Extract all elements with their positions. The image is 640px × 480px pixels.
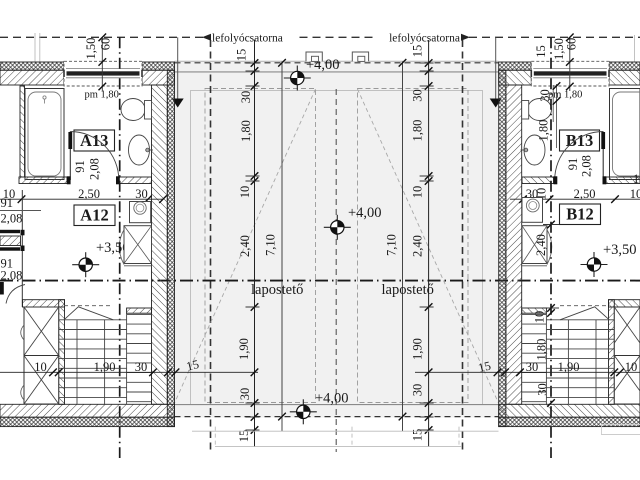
left eaves down arrow xyxy=(177,37,179,100)
left niche partition line xyxy=(21,190,23,307)
washbasin A xyxy=(129,135,150,165)
svg-text:30: 30 xyxy=(526,360,539,374)
left stairs direction arrow xyxy=(64,305,113,307)
right unit top wall insulation xyxy=(499,62,532,70)
svg-text:1,50: 1,50 xyxy=(84,38,98,60)
bathroom B13 door leaf xyxy=(602,132,604,181)
left wall cased opening xyxy=(0,230,20,233)
svg-text:pm 1,80: pm 1,80 xyxy=(548,90,582,101)
svg-text:30: 30 xyxy=(536,383,550,396)
bathroom A13 left partition xyxy=(20,86,25,177)
svg-text:lapostető: lapostető xyxy=(382,282,434,298)
svg-text:91: 91 xyxy=(73,160,87,173)
left unit right wall brick xyxy=(152,85,168,404)
left unit axis line xyxy=(119,37,121,458)
svg-text:pm 1,80: pm 1,80 xyxy=(85,90,119,101)
lower neighbor line 2 xyxy=(215,445,462,447)
svg-text:+4,00: +4,00 xyxy=(348,205,382,221)
svg-text:15: 15 xyxy=(411,429,425,442)
svg-text:60: 60 xyxy=(99,38,113,51)
svg-text:+3,50: +3,50 xyxy=(603,242,637,258)
svg-text:30: 30 xyxy=(411,384,425,397)
svg-text:10: 10 xyxy=(238,186,252,199)
svg-text:1,90: 1,90 xyxy=(237,338,251,360)
left roof slope diagonal xyxy=(175,89,316,403)
svg-text:lefolyócsatorna: lefolyócsatorna xyxy=(212,33,283,45)
left drain channel dashed line xyxy=(210,40,212,450)
right stairs dimension line xyxy=(415,371,640,373)
svg-text:10: 10 xyxy=(630,187,640,201)
room label A12 xyxy=(74,205,115,226)
lefolyócsatorna label left xyxy=(202,34,211,41)
room label B12 xyxy=(560,204,601,225)
B12 dimension line xyxy=(510,198,640,200)
washbasin B xyxy=(524,135,545,165)
svg-text:1,80: 1,80 xyxy=(537,120,551,142)
washing machine B xyxy=(522,198,543,223)
right unit left wall brick xyxy=(506,85,522,404)
right window xyxy=(531,61,609,86)
svg-text:lefolyócsatorna: lefolyócsatorna xyxy=(389,33,460,45)
lower neighbor dashes xyxy=(214,427,216,447)
svg-text:1,90: 1,90 xyxy=(558,360,580,374)
roof inner light rect xyxy=(191,91,483,405)
left unit top wall insulation xyxy=(0,62,64,70)
bathroom A13 door swing arc xyxy=(70,132,119,181)
svg-text:15: 15 xyxy=(534,45,548,58)
left stairs landing wall xyxy=(127,308,152,313)
left niche counter line xyxy=(0,210,41,212)
main horizontal axis line xyxy=(0,280,640,282)
elevation marker +3,50 left xyxy=(72,252,99,277)
elevation marker +4,00 bottom xyxy=(290,399,317,424)
left window xyxy=(64,61,142,86)
right shaft top wall xyxy=(609,300,640,307)
svg-text:30: 30 xyxy=(411,89,425,102)
svg-text:2,40: 2,40 xyxy=(238,235,252,257)
center dashed line xyxy=(335,89,337,452)
shower tray B xyxy=(522,226,547,264)
left unit right wall insulation xyxy=(167,70,174,426)
washing machine A xyxy=(130,202,151,223)
left shaft top wall xyxy=(23,300,65,307)
right unit top wall brick xyxy=(499,70,532,85)
right shaft box lower xyxy=(614,356,640,405)
svg-text:B12: B12 xyxy=(566,205,594,224)
lower neighbor line 1 xyxy=(192,430,499,432)
roof top edge line xyxy=(175,60,499,62)
svg-text:30: 30 xyxy=(238,388,252,401)
svg-text:+4,00: +4,00 xyxy=(315,391,349,407)
svg-text:30: 30 xyxy=(239,91,253,104)
bathroom B mini chain xyxy=(556,84,558,148)
roof lower wall line xyxy=(175,404,499,406)
svg-text:10: 10 xyxy=(34,360,47,374)
roof bottom eaves dashed line xyxy=(175,416,499,418)
left roof panel dashed outline xyxy=(205,89,316,403)
svg-text:1,80: 1,80 xyxy=(239,120,253,142)
svg-text:15: 15 xyxy=(411,45,425,58)
roof drain outlet right xyxy=(352,52,368,61)
svg-text:1,80: 1,80 xyxy=(411,120,425,142)
svg-text:2,50: 2,50 xyxy=(78,187,100,201)
svg-text:2,08: 2,08 xyxy=(88,158,102,180)
left shaft vent arcs xyxy=(21,325,24,340)
elevation marker +4,00 middle xyxy=(324,215,351,240)
left shaft right wall xyxy=(59,300,65,405)
left stairs treads xyxy=(59,314,152,401)
left 7,10 overall dimension line xyxy=(281,62,283,432)
roof upper wall line xyxy=(175,71,499,73)
svg-text:2,50: 2,50 xyxy=(574,187,596,201)
svg-text:15: 15 xyxy=(235,49,249,62)
svg-text:2,08: 2,08 xyxy=(580,155,594,177)
svg-text:10: 10 xyxy=(633,172,640,186)
svg-text:1,90: 1,90 xyxy=(94,360,116,374)
svg-text:2,08: 2,08 xyxy=(1,212,23,226)
svg-text:7,10: 7,10 xyxy=(264,234,278,256)
lefolyócsatorna label right xyxy=(461,34,470,41)
right shaft box upper xyxy=(614,307,640,356)
right roof dimension chain line xyxy=(428,40,430,447)
svg-text:91: 91 xyxy=(566,158,580,171)
svg-text:lapostető: lapostető xyxy=(251,282,303,298)
svg-text:7,10: 7,10 xyxy=(385,234,399,256)
right unit axis line xyxy=(550,37,552,458)
left stairs flight lines xyxy=(76,320,78,405)
room label B13 xyxy=(560,130,600,151)
toilet B partition line xyxy=(552,85,554,122)
left unit bottom wall insulation xyxy=(0,417,175,426)
svg-text:1,90: 1,90 xyxy=(411,338,425,360)
elevation marker +3,50 right xyxy=(581,252,608,277)
toilet A xyxy=(121,99,145,121)
bathroom B13 bottom partition xyxy=(522,177,554,184)
A12 dimension line xyxy=(0,198,163,200)
svg-text:10: 10 xyxy=(625,360,638,374)
svg-text:2,40: 2,40 xyxy=(411,235,425,257)
svg-text:10: 10 xyxy=(411,186,425,199)
left stairs dimension line xyxy=(0,371,258,373)
bathroom A13 door leaf xyxy=(69,132,71,181)
left shaft box upper xyxy=(24,307,59,356)
toilet B xyxy=(528,99,552,121)
svg-text:30: 30 xyxy=(135,360,148,374)
bathtub A xyxy=(25,89,64,180)
bathroom A13 bottom partition xyxy=(19,177,67,184)
room label A13 xyxy=(74,130,115,151)
left window dimension line xyxy=(101,37,103,91)
svg-text:2,40: 2,40 xyxy=(534,234,548,256)
svg-text:2,08: 2,08 xyxy=(1,269,23,283)
left shaft box lower xyxy=(24,356,59,405)
svg-text:A12: A12 xyxy=(80,206,108,225)
right unit bottom wall brick xyxy=(499,404,640,417)
right unit left wall insulation xyxy=(499,70,506,426)
right drain channel dashed line xyxy=(462,40,464,450)
bathtub B xyxy=(610,89,640,180)
right stairs direction arrow xyxy=(560,305,609,307)
right roof slope diagonal xyxy=(358,89,499,403)
right unit bottom wall insulation xyxy=(499,417,640,426)
right stairs flight lines xyxy=(595,320,597,405)
roof drain outlet left xyxy=(306,52,322,61)
bottom right corner fragment xyxy=(601,424,640,426)
right shaft left wall xyxy=(609,300,615,405)
right window dimension line xyxy=(569,37,571,91)
right stairs treads xyxy=(522,314,615,401)
left unit top wall brick xyxy=(0,70,64,85)
right stairs landing wall xyxy=(522,308,547,313)
neighbor dimension line fragment top-left xyxy=(34,33,36,62)
bathroom B13 door swing arc xyxy=(555,132,604,181)
left unit bottom wall brick xyxy=(0,404,175,417)
top boundary dashed line xyxy=(0,36,204,38)
right eaves down arrow xyxy=(495,37,497,100)
left roof dimension chain line xyxy=(254,40,256,447)
right 7,10 overall dimension line xyxy=(402,62,404,432)
A12 left door arc xyxy=(0,282,4,295)
flat roof area fill xyxy=(175,62,499,418)
roof top eaves dashed line xyxy=(175,62,499,64)
elevation marker +4,00 top xyxy=(284,66,311,91)
top right neighbor line fragment xyxy=(634,35,636,62)
svg-text:60: 60 xyxy=(565,38,579,51)
shower tray A xyxy=(124,226,152,264)
svg-text:91: 91 xyxy=(1,196,14,210)
svg-text:30: 30 xyxy=(135,187,148,201)
right roof panel dashed outline xyxy=(358,89,469,403)
